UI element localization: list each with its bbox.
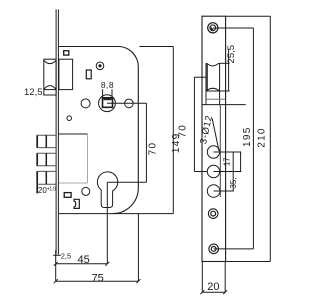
195 dim	[213, 28, 254, 249]
roller knob profile	[206, 63, 220, 91]
euro profile cylinder hole	[97, 172, 117, 208]
svg-text:70: 70	[148, 142, 159, 156]
hub centerline to 70 dim	[107, 102, 146, 104]
cylinder hole 2	[207, 165, 219, 177]
plate outline	[202, 16, 226, 261]
case right extension down to 75 dim	[137, 214, 139, 282]
latch bolt head	[44, 59, 56, 95]
label 8,8 with ticks	[101, 80, 114, 98]
top screw hole	[208, 23, 218, 33]
deadbolt plate band 2	[36, 153, 56, 166]
cylinder hole 3	[207, 185, 220, 198]
deadbolt box inside case	[59, 134, 88, 183]
lock case outline	[59, 47, 138, 214]
svg-text:70: 70	[178, 124, 189, 138]
small square cutout on case top	[64, 51, 69, 55]
45 backset dim	[54, 254, 110, 266]
svg-text:2,5: 2,5	[61, 252, 71, 261]
70 dim (right view) roller to middle hole	[178, 77, 208, 171]
dark bar inside hub square	[104, 99, 112, 101]
lower screw hole B	[209, 244, 219, 254]
svg-text:25,5: 25,5	[226, 45, 237, 64]
hole dim extension lines	[214, 152, 242, 191]
lower circle detail	[82, 187, 90, 195]
svg-text:195: 195	[242, 126, 253, 147]
square hole lower edge (faint)	[206, 98, 225, 100]
svg-text:12,5: 12,5	[24, 87, 43, 98]
svg-text:75: 75	[92, 273, 104, 285]
75 overall dim	[54, 273, 141, 285]
3-Ø12 label with leader	[198, 114, 219, 151]
svg-text:210: 210	[256, 127, 267, 148]
35 dim line	[229, 152, 238, 191]
lower small rect detail	[64, 193, 71, 198]
hub square spindle hole	[103, 98, 113, 108]
small vertical slot rect	[86, 70, 91, 79]
svg-text:45: 45	[77, 254, 89, 266]
149 dim line	[171, 47, 182, 214]
inner case line behind plate	[219, 105, 221, 197]
circle right of hub	[125, 99, 134, 108]
17 dim line	[222, 152, 240, 172]
cylinder hole 1	[207, 146, 219, 158]
screw head with dot	[96, 62, 104, 70]
case bottom edge extended to 149 dim line	[59, 213, 173, 215]
case top extension to 149 dim line	[140, 46, 174, 48]
latch tail box inside case	[59, 59, 73, 89]
svg-text:17: 17	[222, 157, 231, 166]
25,5 dim for roller	[220, 45, 237, 91]
lower screw hole A	[208, 209, 218, 219]
circle left of hub	[81, 99, 90, 108]
deadbolt plate band 1	[36, 135, 56, 147]
svg-text:35,: 35,	[229, 177, 238, 188]
square spindle hole in plate	[206, 91, 220, 105]
left extension line at faceplate	[55, 250, 57, 281]
2,5 faceplate thickness tick and label	[53, 252, 71, 261]
svg-text:8,8: 8,8	[101, 80, 114, 90]
spindle hole bottom line extended right	[202, 104, 246, 106]
70 dim (left view) hub to cylinder	[108, 103, 159, 182]
plate top edge extended to 210 dim	[226, 15, 271, 17]
small circle below hub	[67, 116, 72, 121]
svg-text:20: 20	[207, 281, 219, 293]
deadbolt plate band 3 (left edge extended for throw dim)	[36, 171, 56, 193]
faceplate edge view (double line)	[56, 9, 58, 254]
210 dim	[256, 16, 270, 261]
plate bottom edge extended to 210 dim	[226, 261, 271, 263]
20 width dim below plate	[200, 262, 227, 295]
spring clip detail	[74, 199, 79, 208]
follower hub circle	[99, 95, 116, 112]
backset centerline down from cylinder	[106, 182, 108, 264]
